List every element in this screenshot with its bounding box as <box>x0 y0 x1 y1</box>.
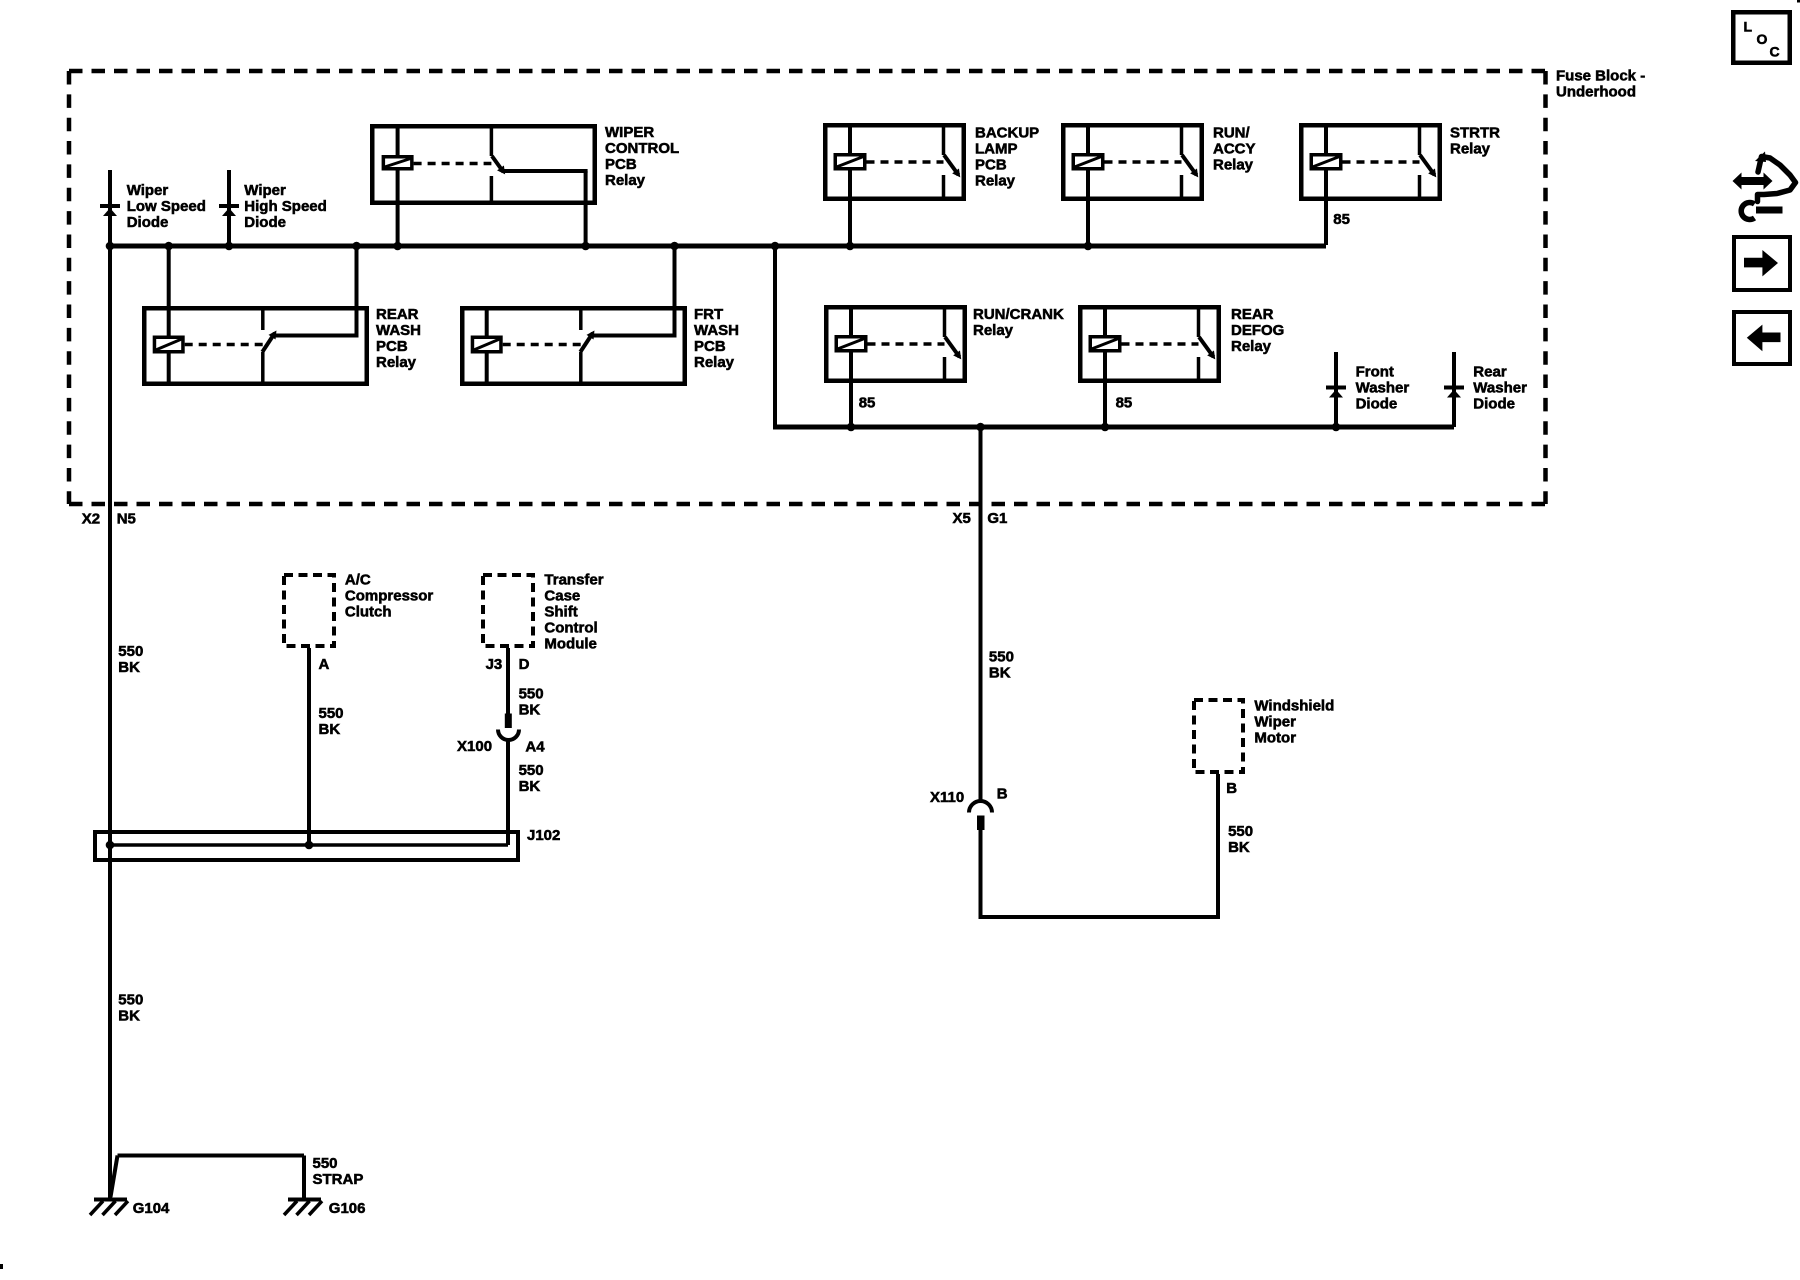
svg-text:550: 550 <box>319 705 344 722</box>
svg-text:L: L <box>1744 19 1753 35</box>
svg-text:Rear: Rear <box>1473 364 1507 381</box>
svg-text:G104: G104 <box>133 1200 170 1217</box>
svg-text:FRT: FRT <box>694 306 723 323</box>
svg-text:Windshield: Windshield <box>1254 697 1334 714</box>
svg-text:550: 550 <box>118 643 143 660</box>
svg-text:X100: X100 <box>457 738 492 755</box>
svg-text:550: 550 <box>989 649 1014 666</box>
svg-text:High Speed: High Speed <box>244 198 327 215</box>
svg-text:Relay: Relay <box>1450 141 1491 158</box>
svg-text:RUN/CRANK: RUN/CRANK <box>973 306 1064 323</box>
svg-text:Washer: Washer <box>1473 380 1527 397</box>
svg-text:PCB: PCB <box>605 156 637 173</box>
svg-text:X2: X2 <box>82 510 100 527</box>
svg-text:Low Speed: Low Speed <box>127 198 206 215</box>
svg-text:85: 85 <box>1333 211 1350 228</box>
svg-text:ACCY: ACCY <box>1213 141 1256 158</box>
svg-text:Relay: Relay <box>1231 338 1272 355</box>
svg-text:RUN/: RUN/ <box>1213 125 1250 142</box>
svg-text:A: A <box>319 656 330 673</box>
svg-text:Compressor: Compressor <box>345 587 434 604</box>
svg-text:Wiper: Wiper <box>1254 713 1296 730</box>
svg-text:Clutch: Clutch <box>345 603 392 620</box>
svg-text:550: 550 <box>1228 823 1253 840</box>
svg-text:REAR: REAR <box>376 306 419 323</box>
svg-text:G1: G1 <box>987 510 1007 527</box>
svg-text:A/C: A/C <box>345 571 371 588</box>
svg-text:BK: BK <box>519 778 541 795</box>
svg-text:Transfer: Transfer <box>544 571 603 588</box>
svg-text:550: 550 <box>519 685 544 702</box>
svg-text:BK: BK <box>319 721 341 738</box>
svg-text:X110: X110 <box>930 789 964 806</box>
svg-text:J3: J3 <box>486 656 503 673</box>
svg-text:X5: X5 <box>953 510 971 527</box>
svg-text:WIPER: WIPER <box>605 124 654 141</box>
svg-text:PCB: PCB <box>694 338 726 355</box>
svg-text:C: C <box>1770 44 1780 60</box>
svg-text:A4: A4 <box>525 738 545 755</box>
svg-text:BACKUP: BACKUP <box>975 125 1039 142</box>
svg-text:Module: Module <box>544 635 597 652</box>
svg-text:Relay: Relay <box>973 322 1014 339</box>
svg-text:85: 85 <box>1116 395 1133 412</box>
svg-text:Relay: Relay <box>1213 157 1254 174</box>
svg-text:Shift: Shift <box>544 603 577 620</box>
svg-text:Diode: Diode <box>244 214 286 231</box>
svg-text:550: 550 <box>519 762 544 779</box>
svg-text:D: D <box>519 656 530 673</box>
svg-text:BK: BK <box>989 665 1011 682</box>
svg-text:G106: G106 <box>329 1200 366 1217</box>
svg-text:Relay: Relay <box>975 173 1016 190</box>
svg-text:Diode: Diode <box>127 214 169 231</box>
svg-text:CONTROL: CONTROL <box>605 140 679 157</box>
svg-text:B: B <box>1226 780 1237 797</box>
svg-text:Case: Case <box>544 587 580 604</box>
svg-text:85: 85 <box>859 395 876 412</box>
svg-text:J102: J102 <box>527 827 560 844</box>
svg-text:N5: N5 <box>117 510 136 527</box>
svg-text:Motor: Motor <box>1254 729 1296 746</box>
svg-text:Diode: Diode <box>1473 396 1515 413</box>
svg-text:BK: BK <box>519 701 541 718</box>
svg-text:550: 550 <box>313 1155 338 1172</box>
svg-text:BK: BK <box>118 659 140 676</box>
svg-text:Underhood: Underhood <box>1556 83 1636 100</box>
svg-text:O: O <box>1757 31 1768 47</box>
svg-text:Wiper: Wiper <box>127 182 169 199</box>
svg-text:B: B <box>997 785 1008 802</box>
svg-text:Relay: Relay <box>694 354 735 371</box>
svg-text:Relay: Relay <box>605 172 646 189</box>
svg-text:BK: BK <box>118 1008 140 1025</box>
svg-text:LAMP: LAMP <box>975 141 1018 158</box>
svg-text:Washer: Washer <box>1356 380 1410 397</box>
svg-text:DEFOG: DEFOG <box>1231 322 1284 339</box>
svg-text:Fuse Block -: Fuse Block - <box>1556 67 1645 84</box>
svg-text:Relay: Relay <box>376 354 417 371</box>
svg-text:550: 550 <box>118 992 143 1009</box>
svg-text:REAR: REAR <box>1231 306 1274 323</box>
svg-text:WASH: WASH <box>376 322 421 339</box>
svg-text:PCB: PCB <box>975 157 1007 174</box>
svg-text:WASH: WASH <box>694 322 739 339</box>
svg-text:BK: BK <box>1228 839 1250 856</box>
svg-text:PCB: PCB <box>376 338 408 355</box>
svg-text:Diode: Diode <box>1356 396 1398 413</box>
svg-text:Control: Control <box>544 619 597 636</box>
svg-text:Wiper: Wiper <box>244 182 286 199</box>
svg-text:Front: Front <box>1356 364 1394 381</box>
svg-text:STRTR: STRTR <box>1450 125 1500 142</box>
svg-text:STRAP: STRAP <box>313 1171 364 1188</box>
